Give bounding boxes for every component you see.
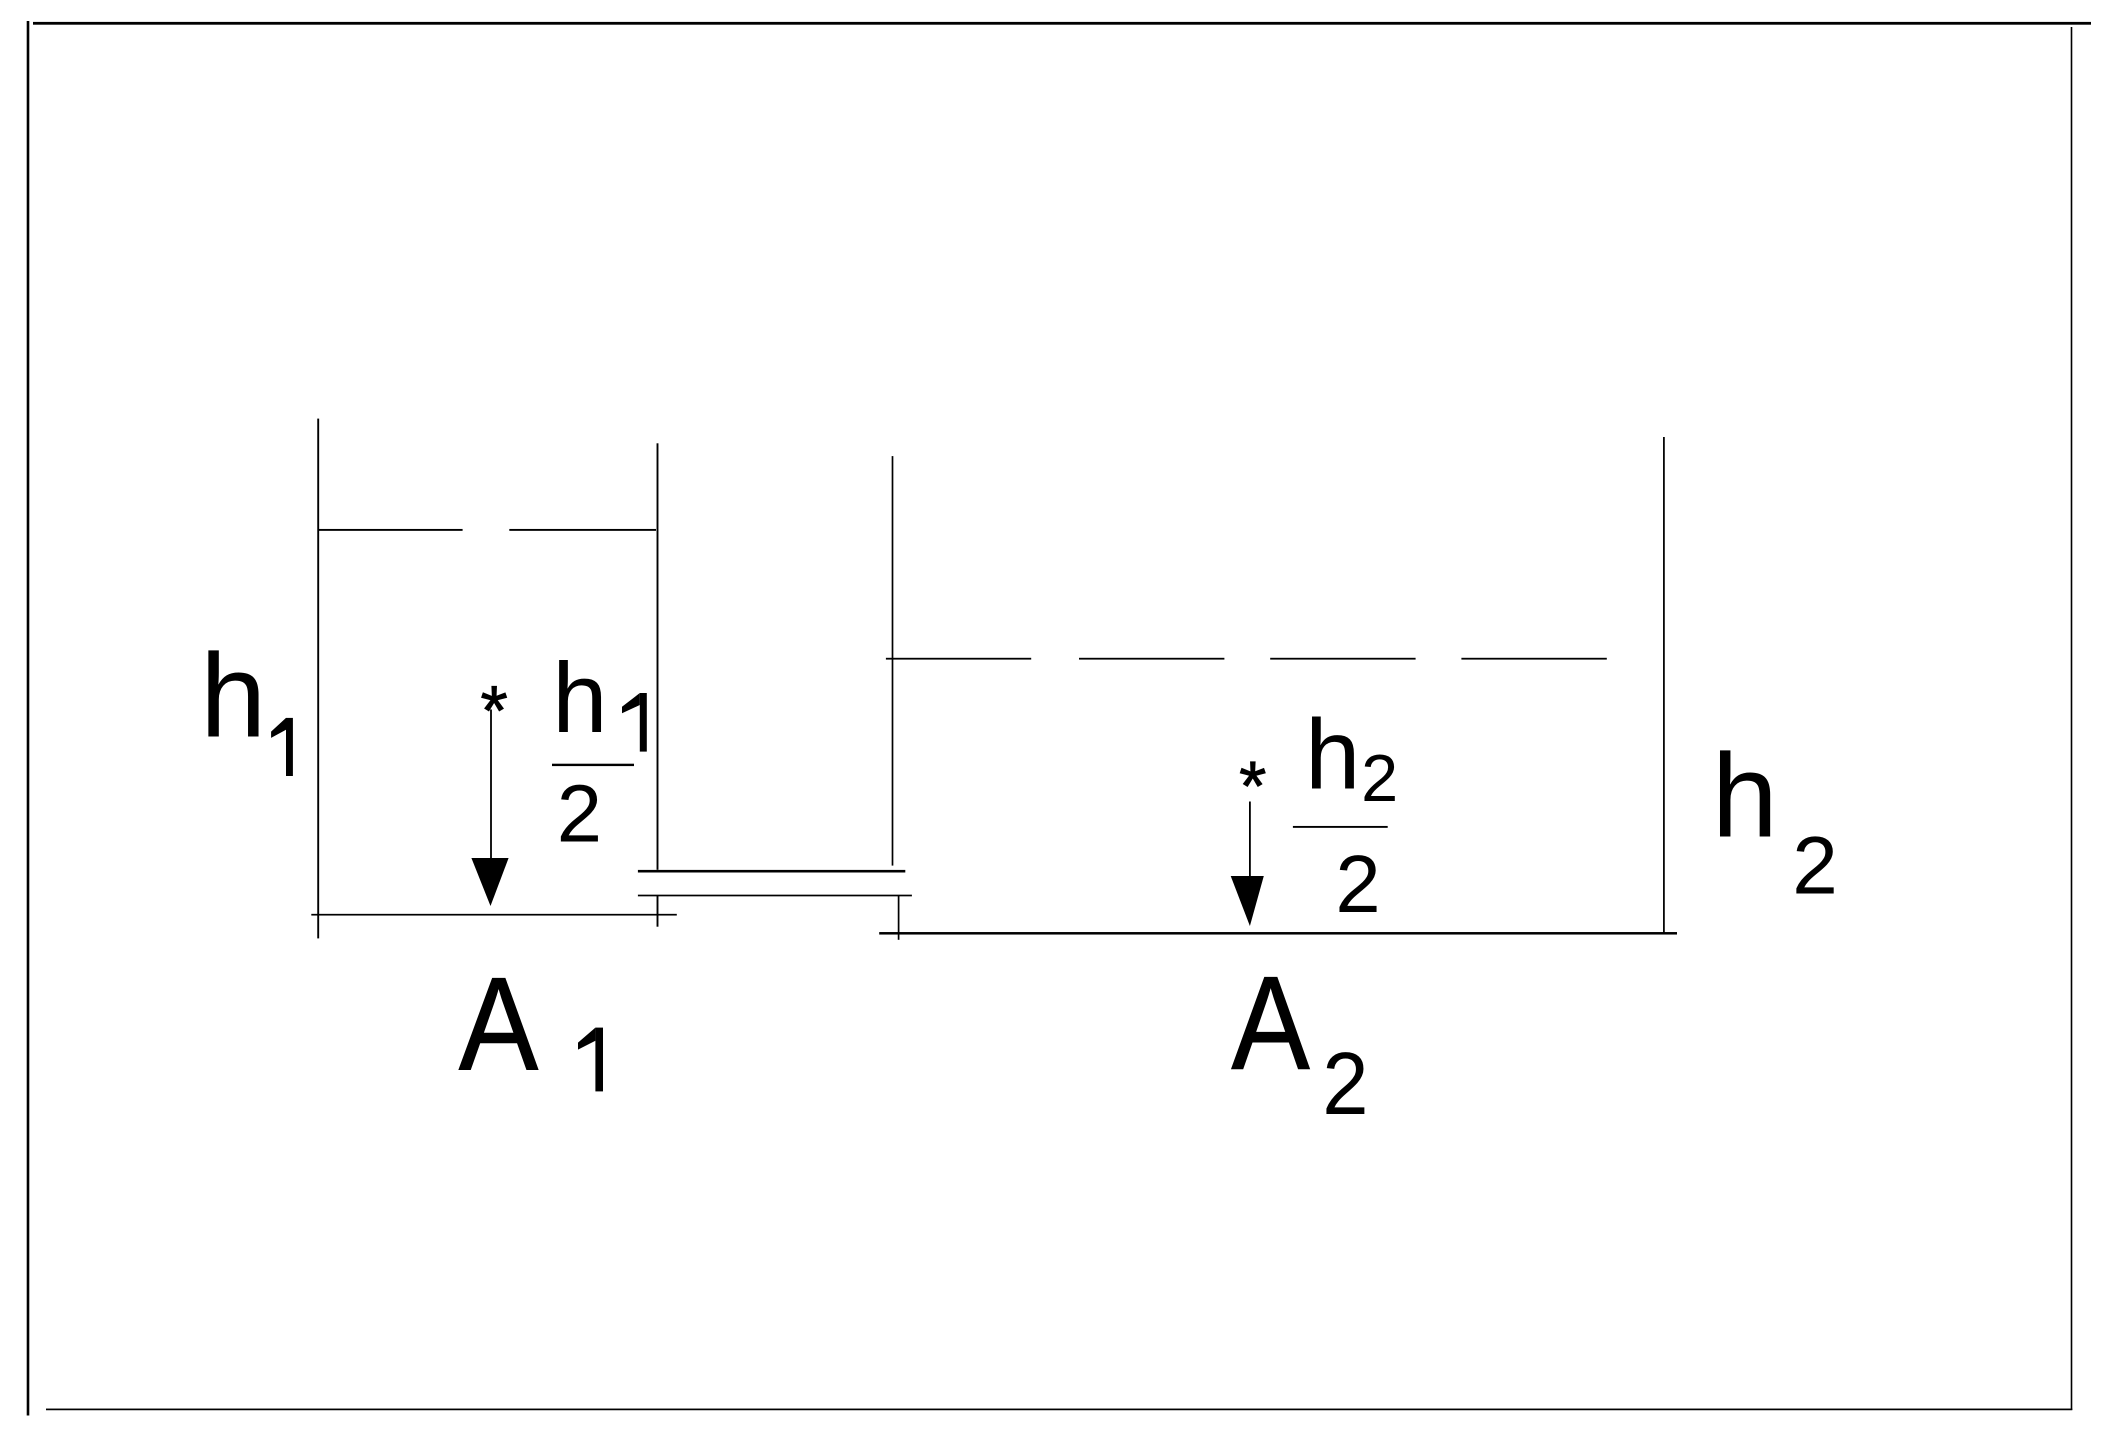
tank 1 bottom line — [311, 914, 677, 916]
tank 2 water level dash 3 — [1270, 658, 1415, 660]
arrow 2 shaft — [1249, 802, 1251, 877]
svg-text:h: h — [552, 643, 607, 754]
fraction h1/2: subscript 1 — [640, 693, 647, 752]
label A1: subscript 1 — [595, 1028, 603, 1092]
svg-text:2: 2 — [1792, 821, 1838, 912]
svg-text:2: 2 — [1361, 742, 1398, 816]
svg-text:*: * — [1239, 747, 1266, 825]
svg-text:2: 2 — [557, 769, 602, 860]
tank 2 left wall upper segment — [892, 456, 894, 865]
tank 2 water level dash 1 — [886, 658, 1031, 660]
tank 2 right wall — [1663, 437, 1665, 934]
pipe lower wall — [638, 895, 912, 897]
arrow 1 shaft — [490, 710, 492, 859]
fraction h1/2: bar — [552, 764, 634, 766]
tank 2 left wall lower segment — [898, 896, 900, 940]
label h1: subscript 1 — [286, 718, 293, 776]
svg-text:*: * — [481, 671, 508, 749]
tank 1 right wall lower segment — [657, 895, 659, 926]
svg-text:A: A — [459, 951, 539, 1099]
tank 1 water level dash 1 — [318, 529, 462, 531]
tank 2 water level dash 2 — [1079, 658, 1224, 660]
svg-text:h: h — [200, 629, 266, 762]
tank 1 left wall — [317, 419, 319, 939]
tank 2 bottom line — [879, 932, 1677, 935]
svg-text:A: A — [1231, 950, 1310, 1098]
arrow 2 head — [1231, 876, 1264, 926]
label A2: A — [1231, 950, 1310, 1098]
tank 2 water level dash 4 — [1461, 658, 1606, 660]
svg-text:2: 2 — [1322, 1034, 1368, 1133]
tank 1 right wall upper segment — [657, 443, 659, 870]
svg-text:h: h — [1712, 729, 1778, 862]
arrow 1 head — [471, 858, 508, 906]
fraction h2/2: bar — [1293, 826, 1388, 828]
svg-text:h: h — [1305, 700, 1360, 811]
tank 1 water level dash 2 — [509, 529, 656, 531]
svg-text:2: 2 — [1335, 839, 1380, 930]
label A1: A — [459, 951, 539, 1099]
label A2: subscript 2 — [1322, 1034, 1368, 1133]
pipe upper wall — [638, 870, 905, 873]
